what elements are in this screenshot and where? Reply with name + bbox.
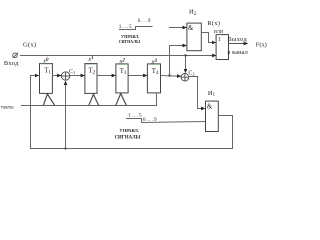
wire control arrow into I2 (169, 27, 186, 29)
and gate I1 (206, 101, 219, 131)
svg-text:C1: C1 (69, 69, 75, 75)
or gate ИЛИ (216, 35, 228, 60)
flip-flop T2 (85, 64, 97, 94)
and gate I2 (187, 23, 201, 51)
svg-text:F(x): F(x) (256, 41, 267, 48)
svg-text:УПРАВЛ.: УПРАВЛ. (119, 128, 139, 133)
wire input bus G(x) from terminal to OR gate (20, 55, 216, 57)
svg-text:6...9: 6...9 (138, 18, 152, 24)
svg-text:C2: C2 (188, 71, 194, 77)
xor C1 (61, 72, 69, 80)
svg-text:ИЛИ: ИЛИ (214, 29, 224, 34)
clock triangle T1 (43, 94, 54, 105)
wire T2 output to T3 (97, 75, 116, 77)
xor C2 (181, 73, 189, 81)
svg-text:Т2: Т2 (89, 68, 96, 76)
flip-flop T4 (147, 64, 160, 93)
svg-text:R(x): R(x) (207, 20, 220, 27)
flip-flop T3 (116, 64, 128, 93)
wire control waveform I1 (126, 119, 205, 123)
wire OR output F(x) (229, 43, 248, 45)
wire C1 output to T2 (70, 75, 85, 77)
svg-text:Выход: Выход (227, 36, 247, 43)
wire T4 output to XOR C2 (161, 75, 181, 78)
wire I2 output to OR gate (201, 33, 216, 43)
svg-text:Т4: Т4 (152, 68, 159, 76)
svg-text:СИГНАЛЫ: СИГНАЛЫ (119, 39, 141, 44)
wire I1 feedback loop to T1 input and C1 (31, 76, 233, 149)
wire riser from T4 output up to AND I2 input (170, 46, 187, 76)
input terminal circle (13, 53, 19, 58)
svg-text:&: & (207, 103, 213, 110)
wire T1 output to C1 (52, 75, 61, 77)
svg-text:СИГНАЛЫ: СИГНАЛЫ (115, 136, 141, 141)
svg-text:Вход: Вход (4, 60, 19, 67)
flip-flop T1 (40, 64, 53, 94)
svg-text:Т3: Т3 (120, 68, 127, 76)
svg-text:И1: И1 (208, 90, 216, 98)
clock triangle T3 (116, 94, 126, 106)
wire drop from input bus to XOR C2 top (185, 56, 187, 73)
svg-text:в канал: в канал (227, 49, 248, 56)
wire riser feedback to XOR C1 bottom (65, 81, 67, 148)
svg-text:G(x): G(x) (23, 42, 36, 49)
clock triangle T2 (89, 94, 99, 105)
svg-text:Т1: Т1 (44, 68, 51, 76)
svg-text:&: & (188, 25, 194, 32)
svg-text:1: 1 (218, 37, 221, 43)
wire T3 output to T4 (128, 75, 147, 77)
svg-text:1...5: 1...5 (128, 113, 143, 119)
node junction T4 output (168, 74, 170, 76)
wire XOR C2 output to AND I1 (189, 77, 205, 109)
svg-text:И2: И2 (189, 9, 197, 17)
node junction feedback to C1 riser (64, 147, 66, 149)
wire control waveform I2 (119, 27, 153, 30)
node junction on input bus (184, 54, 186, 56)
svg-text:x1: x1 (87, 56, 93, 63)
svg-text:такты: такты (1, 104, 14, 110)
wire clock line (21, 93, 157, 106)
